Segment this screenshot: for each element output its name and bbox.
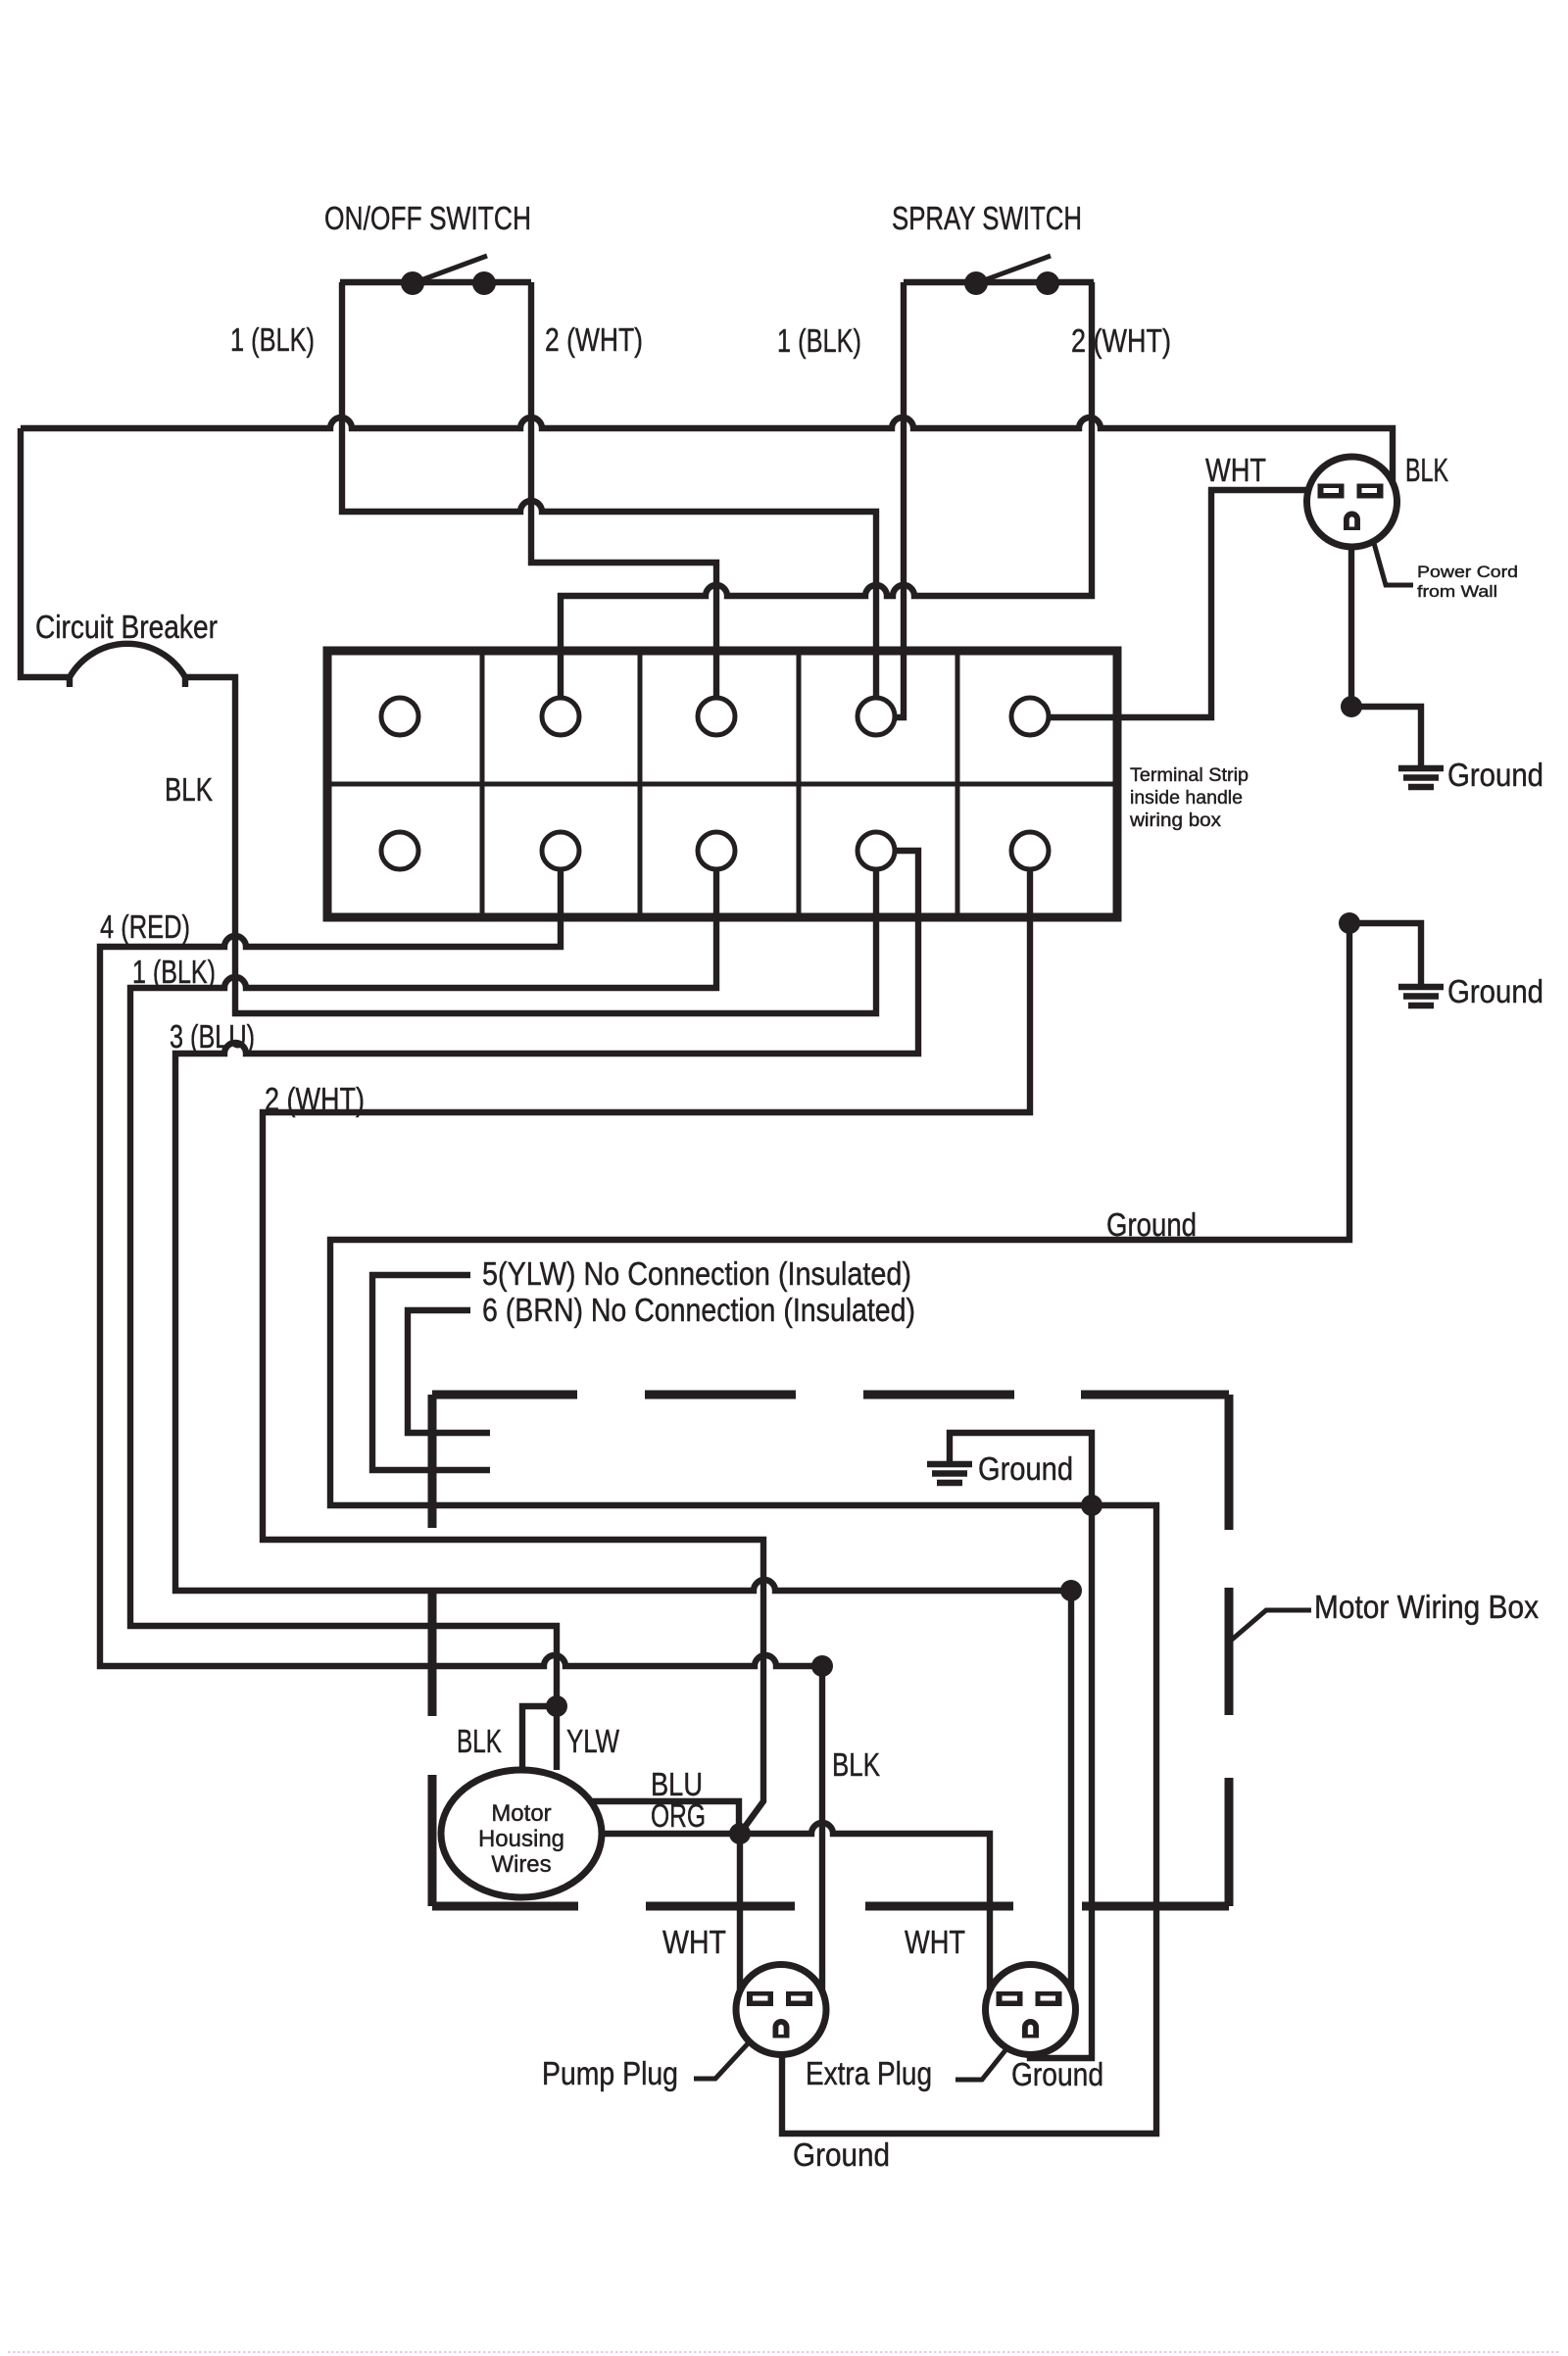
svg-text:5(YLW) No Connection (Insulate: 5(YLW) No Connection (Insulated) — [482, 1255, 911, 1292]
svg-text:Ground: Ground — [1106, 1206, 1197, 1243]
svg-text:6 (BRN) No Connection (Insulat: 6 (BRN) No Connection (Insulated) — [482, 1292, 915, 1328]
svg-text:BLK: BLK — [1405, 452, 1448, 488]
svg-text:Pump Plug: Pump Plug — [542, 2055, 678, 2091]
svg-text:ORG: ORG — [651, 1797, 706, 1834]
svg-text:YLW: YLW — [566, 1723, 620, 1759]
svg-text:Housing: Housing — [478, 1826, 564, 1852]
svg-text:BLK: BLK — [165, 771, 213, 808]
svg-text:Ground: Ground — [1447, 973, 1543, 1009]
svg-text:2 (WHT): 2 (WHT) — [265, 1081, 365, 1117]
svg-text:2 (WHT): 2 (WHT) — [1071, 322, 1171, 359]
svg-text:3 (BLU): 3 (BLU) — [170, 1018, 255, 1055]
svg-text:Extra Plug: Extra Plug — [806, 2055, 932, 2091]
svg-text:BLK: BLK — [457, 1723, 502, 1759]
svg-text:Ground: Ground — [1011, 2056, 1103, 2092]
svg-text:2 (WHT): 2 (WHT) — [545, 321, 643, 358]
svg-text:Terminal Strip: Terminal Strip — [1130, 764, 1249, 786]
svg-text:4 (RED): 4 (RED) — [100, 908, 190, 945]
svg-text:wiring box: wiring box — [1129, 810, 1221, 831]
svg-text:Ground: Ground — [793, 2136, 890, 2173]
svg-text:1 (BLK): 1 (BLK) — [132, 954, 216, 990]
svg-text:Wires: Wires — [491, 1851, 551, 1878]
svg-text:WHT: WHT — [905, 1924, 965, 1960]
svg-text:WHT: WHT — [1205, 452, 1266, 488]
svg-text:Ground: Ground — [978, 1450, 1073, 1487]
svg-text:Ground: Ground — [1447, 757, 1543, 793]
svg-text:from Wall: from Wall — [1417, 582, 1497, 601]
svg-text:1 (BLK): 1 (BLK) — [777, 322, 861, 359]
svg-text:Motor: Motor — [491, 1800, 551, 1827]
svg-text:Circuit Breaker: Circuit Breaker — [35, 609, 218, 645]
svg-text:BLK: BLK — [832, 1746, 880, 1783]
svg-text:1 (BLK): 1 (BLK) — [230, 321, 315, 358]
svg-text:SPRAY SWITCH: SPRAY SWITCH — [892, 200, 1082, 236]
svg-text:ON/OFF SWITCH: ON/OFF SWITCH — [324, 200, 531, 236]
svg-text:inside handle: inside handle — [1130, 787, 1243, 809]
svg-text:Motor Wiring Box: Motor Wiring Box — [1314, 1589, 1539, 1625]
svg-text:Power Cord: Power Cord — [1417, 563, 1518, 581]
svg-text:WHT: WHT — [662, 1924, 726, 1960]
